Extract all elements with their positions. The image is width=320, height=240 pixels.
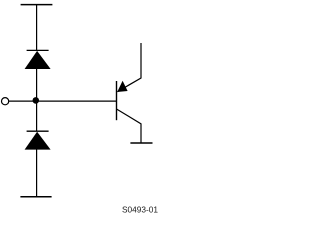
diode D1 anode triangle	[25, 51, 51, 69]
bottom rail terminal bar	[20, 196, 51, 198]
transistor Q1 emitter lead	[117, 43, 141, 92]
transistor Q1 emitter arrowhead	[117, 81, 127, 92]
wire node to diode D2	[36, 101, 38, 132]
transistor Q1 collector lead	[117, 109, 142, 143]
diode D1 cathode bar	[27, 49, 49, 51]
wire D2 to bottom rail	[36, 149, 38, 197]
diode D2 anode triangle	[25, 132, 51, 150]
wire top rail to diode D1	[36, 5, 38, 51]
input terminal circle	[2, 98, 9, 105]
top rail terminal bar	[21, 4, 53, 6]
collector rail terminal bar	[130, 142, 152, 144]
junction dot node	[33, 97, 40, 104]
wire D1 to node	[36, 69, 38, 102]
svg-text:S0493-01: S0493-01	[122, 204, 158, 214]
diode D2 cathode bar	[27, 130, 49, 132]
transistor Q1 base bar	[116, 81, 118, 120]
base wire from input terminal to transistor base	[9, 100, 117, 102]
